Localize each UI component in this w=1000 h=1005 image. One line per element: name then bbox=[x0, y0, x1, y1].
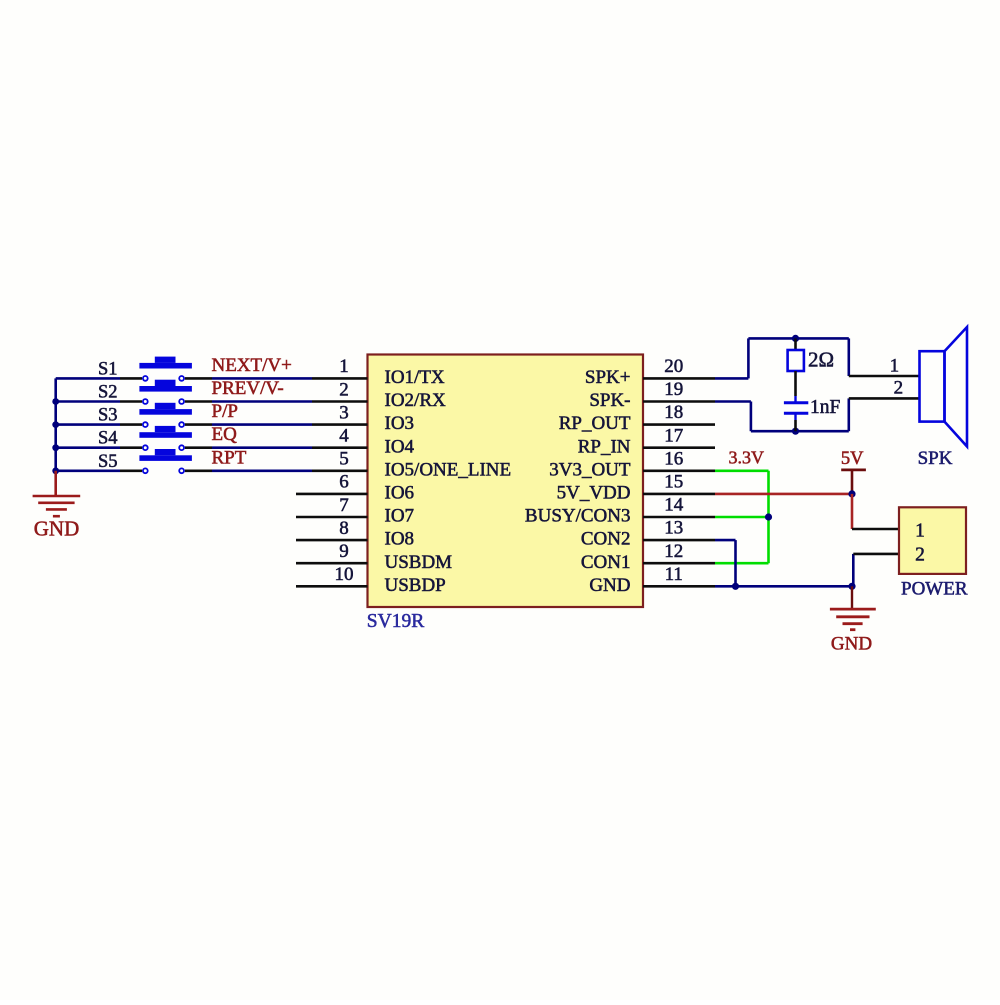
node: bus junction at S2 bbox=[52, 398, 59, 405]
wire: S2 row from bus to switch and to IC pin 2 bbox=[56, 400, 368, 403]
node: bottom rail junction bbox=[792, 428, 799, 435]
IC U1 right pin labels bbox=[525, 367, 631, 596]
speaker SPK bbox=[918, 327, 967, 469]
resistor R1 2Ω bbox=[788, 348, 835, 372]
wire: 3.3V green net pin16 down to pin12 bbox=[715, 471, 769, 563]
wire: CON2 pin13 navy down to GND net bbox=[715, 540, 736, 586]
wire: GND net pin11 horizontal bbox=[715, 585, 852, 588]
svg-text:12: 12 bbox=[664, 541, 683, 562]
node: bus junction at S3 bbox=[52, 421, 59, 428]
IC U1 right pin numbers 20-11 bbox=[664, 356, 684, 585]
wire: SPK+ net pin20 to top rail bbox=[715, 338, 849, 378]
svg-text:P/P: P/P bbox=[212, 401, 238, 422]
svg-text:2: 2 bbox=[339, 379, 349, 400]
node: GND net junction at ground drop bbox=[848, 583, 855, 590]
svg-text:17: 17 bbox=[664, 425, 683, 446]
wire: S4 row from bus to switch and to IC pin 4 bbox=[56, 446, 368, 449]
svg-text:1: 1 bbox=[339, 356, 349, 377]
IC U1 SV19R body bbox=[367, 355, 643, 632]
wire: S3 row from bus to switch and to IC pin 3 bbox=[56, 423, 368, 426]
svg-text:8: 8 bbox=[339, 518, 349, 539]
svg-text:11: 11 bbox=[665, 564, 683, 585]
svg-text:S5: S5 bbox=[98, 452, 118, 472]
capacitor C1 1nF bbox=[784, 397, 841, 418]
svg-text:GND: GND bbox=[589, 575, 630, 596]
wire: speaker pin 1 lead bbox=[849, 375, 920, 378]
svg-text:S2: S2 bbox=[98, 383, 118, 403]
IC U1 right pin stubs (black) pins 20-11 bbox=[643, 378, 715, 586]
svg-text:SV19R: SV19R bbox=[367, 611, 424, 632]
svg-text:IO5/ONE_LINE: IO5/ONE_LINE bbox=[385, 459, 512, 480]
switch S5 bbox=[98, 449, 192, 473]
svg-text:USBDP: USBDP bbox=[385, 575, 446, 596]
wire: resistor top lead bbox=[794, 338, 797, 351]
svg-text:13: 13 bbox=[664, 518, 683, 539]
svg-text:9: 9 bbox=[339, 541, 349, 562]
switch S1 bbox=[98, 357, 192, 381]
svg-text:3.3V: 3.3V bbox=[729, 448, 765, 468]
wire: capacitor bottom lead bbox=[794, 413, 796, 420]
svg-text:2Ω: 2Ω bbox=[808, 348, 834, 372]
svg-text:IO3: IO3 bbox=[385, 413, 415, 434]
switch S4 bbox=[98, 426, 192, 450]
switch S2 bbox=[98, 380, 192, 404]
svg-text:SPK-: SPK- bbox=[589, 390, 630, 411]
svg-text:CON1: CON1 bbox=[581, 552, 631, 573]
svg-text:SPK+: SPK+ bbox=[585, 367, 631, 388]
IC U1 left pin numbers 1-10 bbox=[335, 356, 354, 585]
svg-text:10: 10 bbox=[335, 564, 354, 585]
svg-text:1: 1 bbox=[890, 356, 900, 377]
node: bus junction at S4 bbox=[52, 444, 59, 451]
power 5V symbol bbox=[841, 449, 866, 493]
svg-text:RPT: RPT bbox=[212, 447, 247, 468]
svg-text:IO2/RX: IO2/RX bbox=[385, 390, 447, 411]
svg-text:1: 1 bbox=[915, 521, 925, 542]
svg-text:GND: GND bbox=[34, 517, 80, 541]
svg-text:5: 5 bbox=[339, 449, 349, 470]
svg-text:2: 2 bbox=[894, 377, 904, 398]
svg-text:RP_IN: RP_IN bbox=[578, 436, 631, 457]
node: green net junction at pin14 bbox=[765, 513, 772, 520]
svg-text:S1: S1 bbox=[98, 359, 118, 379]
svg-text:19: 19 bbox=[664, 379, 683, 400]
wire: SPK- net pin19 to bottom rail bbox=[715, 398, 849, 431]
switch S3 bbox=[98, 403, 192, 427]
svg-text:EQ: EQ bbox=[212, 424, 238, 445]
wire: 5V red net pin15 to junction bbox=[715, 493, 852, 496]
wire: S5 row from bus to switch and to IC pin 5 bbox=[56, 469, 368, 472]
svg-text:16: 16 bbox=[664, 448, 683, 469]
wire: 5V to POWER pin 1 bbox=[852, 494, 899, 529]
svg-text:20: 20 bbox=[664, 356, 683, 377]
wire: S1 row from bus to switch and to IC pin 1 bbox=[56, 377, 368, 380]
connector POWER bbox=[899, 507, 968, 599]
svg-text:RP_OUT: RP_OUT bbox=[559, 413, 631, 434]
wire: speaker pin 2 lead bbox=[849, 397, 920, 400]
svg-text:SPK: SPK bbox=[918, 448, 953, 469]
ground GND left bbox=[33, 471, 81, 541]
svg-text:1nF: 1nF bbox=[810, 397, 841, 418]
svg-text:IO8: IO8 bbox=[385, 529, 415, 550]
svg-text:S3: S3 bbox=[98, 406, 118, 426]
svg-text:USBDM: USBDM bbox=[385, 552, 453, 573]
svg-text:3V3_OUT: 3V3_OUT bbox=[549, 459, 631, 480]
svg-text:BUSY/CON3: BUSY/CON3 bbox=[525, 506, 631, 527]
svg-text:CON2: CON2 bbox=[581, 529, 631, 550]
svg-text:PREV/V-: PREV/V- bbox=[212, 378, 284, 399]
node: top rail junction bbox=[792, 335, 799, 342]
wire: GND net up to POWER pin 2 bbox=[853, 554, 899, 586]
svg-text:5V: 5V bbox=[841, 449, 864, 469]
svg-text:GND: GND bbox=[831, 634, 872, 655]
svg-text:5V_VDD: 5V_VDD bbox=[557, 483, 631, 504]
svg-text:3: 3 bbox=[339, 402, 349, 423]
svg-text:15: 15 bbox=[664, 472, 683, 493]
svg-text:4: 4 bbox=[339, 426, 349, 447]
svg-text:POWER: POWER bbox=[901, 578, 968, 599]
svg-text:IO4: IO4 bbox=[385, 436, 415, 457]
ground GND right bbox=[830, 586, 876, 654]
svg-text:2: 2 bbox=[915, 545, 925, 566]
svg-text:7: 7 bbox=[339, 495, 349, 516]
svg-text:18: 18 bbox=[664, 402, 683, 423]
svg-text:NEXT/V+: NEXT/V+ bbox=[212, 355, 292, 376]
svg-text:IO1/TX: IO1/TX bbox=[385, 367, 445, 388]
svg-text:6: 6 bbox=[339, 472, 349, 493]
svg-text:S4: S4 bbox=[98, 429, 118, 449]
svg-text:IO7: IO7 bbox=[385, 506, 415, 527]
IC U1 left floating pin stubs 6-10 (black) bbox=[296, 494, 368, 586]
wire: left ground bus vertical bbox=[54, 378, 57, 470]
node: 5V junction bbox=[848, 490, 855, 497]
svg-text:IO6: IO6 bbox=[385, 483, 415, 504]
svg-text:14: 14 bbox=[664, 495, 684, 516]
node: GND net junction at pin13 drop bbox=[732, 583, 739, 590]
node: bus junction at S5 bbox=[52, 467, 59, 474]
IC U1 left pin labels bbox=[385, 367, 512, 596]
wire: resistor to capacitor lead bbox=[794, 371, 797, 396]
